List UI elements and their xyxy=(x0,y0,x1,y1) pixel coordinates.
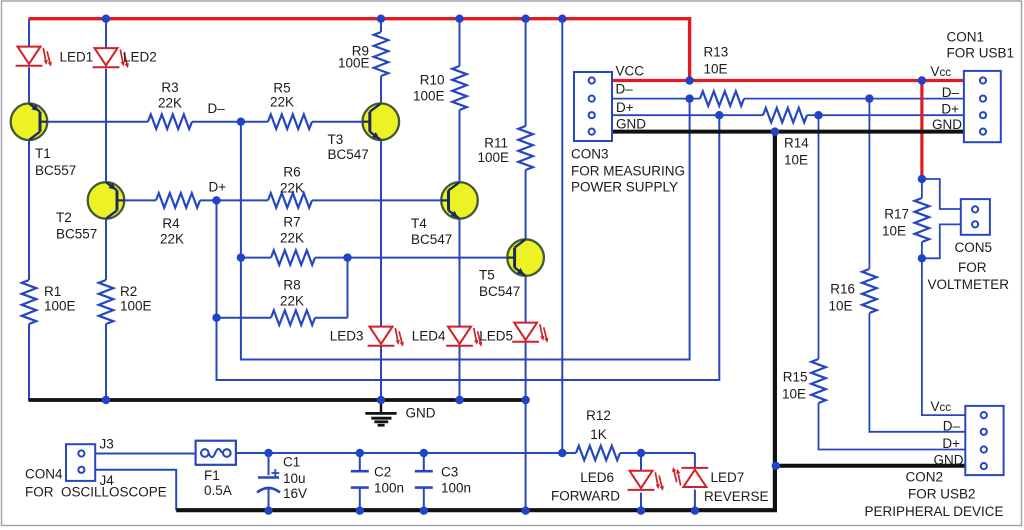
svg-text:10u: 10u xyxy=(283,471,306,486)
svg-text:LED6: LED6 xyxy=(580,470,614,485)
svg-text:BC557: BC557 xyxy=(35,163,76,178)
svg-text:BC547: BC547 xyxy=(411,232,452,247)
svg-text:16V: 16V xyxy=(283,486,307,501)
svg-text:Vcc: Vcc xyxy=(931,399,952,414)
svg-text:FOR MEASURING: FOR MEASURING xyxy=(571,164,685,179)
svg-text:D–: D– xyxy=(943,419,961,434)
svg-text:FOR USB1: FOR USB1 xyxy=(947,46,1015,61)
svg-text:LED4: LED4 xyxy=(412,329,446,344)
svg-text:100E: 100E xyxy=(44,299,76,314)
svg-text:LED5: LED5 xyxy=(479,329,513,344)
svg-text:T4: T4 xyxy=(411,216,427,231)
svg-text:T1: T1 xyxy=(35,146,51,161)
svg-text:R15: R15 xyxy=(783,370,808,385)
svg-text:C2: C2 xyxy=(374,465,391,480)
svg-text:T5: T5 xyxy=(479,268,495,283)
svg-text:T3: T3 xyxy=(328,132,344,147)
svg-text:VOLTMETER: VOLTMETER xyxy=(928,277,1010,292)
svg-text:CON3: CON3 xyxy=(571,147,609,162)
svg-text:100E: 100E xyxy=(413,89,445,104)
svg-text:T2: T2 xyxy=(56,210,72,225)
svg-text:FOR OSCILLOSCOPE: FOR OSCILLOSCOPE xyxy=(25,485,167,500)
svg-text:22K: 22K xyxy=(280,181,304,196)
svg-text:10E: 10E xyxy=(782,387,806,402)
svg-text:LED3: LED3 xyxy=(330,329,364,344)
svg-text:10E: 10E xyxy=(704,62,728,77)
svg-text:R7: R7 xyxy=(283,215,300,230)
svg-text:BC547: BC547 xyxy=(479,284,520,299)
svg-text:C1: C1 xyxy=(283,455,300,470)
svg-text:LED2: LED2 xyxy=(123,50,157,65)
svg-text:D+: D+ xyxy=(941,102,959,117)
svg-text:GND: GND xyxy=(932,117,962,132)
svg-text:CON4: CON4 xyxy=(25,467,63,482)
svg-text:R17: R17 xyxy=(884,207,909,222)
svg-text:D–: D– xyxy=(616,82,634,97)
svg-text:R11: R11 xyxy=(484,136,508,151)
svg-text:10E: 10E xyxy=(882,224,906,239)
svg-text:R6: R6 xyxy=(283,165,300,180)
svg-text:10E: 10E xyxy=(828,299,852,314)
svg-text:GND: GND xyxy=(616,117,646,132)
svg-text:F1: F1 xyxy=(204,468,220,483)
svg-text:D+: D+ xyxy=(209,180,227,195)
svg-text:R5: R5 xyxy=(273,81,290,96)
svg-text:CON2: CON2 xyxy=(906,470,944,485)
svg-text:R13: R13 xyxy=(704,45,729,60)
svg-text:BC557: BC557 xyxy=(56,227,97,242)
svg-text:R16: R16 xyxy=(830,282,855,297)
svg-text:Vcc: Vcc xyxy=(931,64,952,79)
svg-text:100n: 100n xyxy=(374,481,404,496)
svg-text:J4: J4 xyxy=(100,473,115,488)
svg-text:D+: D+ xyxy=(616,100,634,115)
svg-text:R3: R3 xyxy=(161,80,178,95)
svg-text:22K: 22K xyxy=(280,231,304,246)
svg-text:22K: 22K xyxy=(280,294,304,309)
svg-text:GND: GND xyxy=(934,453,964,468)
svg-text:0.5A: 0.5A xyxy=(204,483,232,498)
svg-text:1K: 1K xyxy=(590,427,607,442)
svg-text:D–: D– xyxy=(942,85,960,100)
svg-text:R2: R2 xyxy=(120,284,137,299)
svg-text:R14: R14 xyxy=(784,136,809,151)
svg-text:VCC: VCC xyxy=(616,64,645,79)
svg-text:LED7: LED7 xyxy=(711,470,745,485)
svg-text:10E: 10E xyxy=(784,153,808,168)
svg-text:C3: C3 xyxy=(441,465,458,480)
svg-text:PERIPHERAL DEVICE: PERIPHERAL DEVICE xyxy=(865,504,1004,519)
svg-text:100E: 100E xyxy=(338,56,370,71)
svg-text:CON1: CON1 xyxy=(947,30,985,45)
svg-text:R12: R12 xyxy=(586,408,611,423)
svg-text:D+: D+ xyxy=(942,436,960,451)
svg-text:22K: 22K xyxy=(270,95,294,110)
svg-text:D–: D– xyxy=(208,101,226,116)
svg-text:FOR: FOR xyxy=(958,260,987,275)
svg-text:J3: J3 xyxy=(100,437,114,452)
svg-text:R1: R1 xyxy=(44,284,61,299)
svg-text:22K: 22K xyxy=(158,96,182,111)
svg-text:100E: 100E xyxy=(477,150,509,165)
svg-text:R10: R10 xyxy=(420,73,445,88)
svg-text:POWER SUPPLY: POWER SUPPLY xyxy=(571,180,678,195)
svg-text:FORWARD: FORWARD xyxy=(551,489,620,504)
svg-text:REVERSE: REVERSE xyxy=(704,489,769,504)
svg-text:LED1: LED1 xyxy=(60,50,94,65)
svg-text:100E: 100E xyxy=(120,299,152,314)
svg-text:BC547: BC547 xyxy=(328,147,369,162)
svg-text:R4: R4 xyxy=(162,216,180,231)
svg-text:100n: 100n xyxy=(441,481,471,496)
svg-text:FOR USB2: FOR USB2 xyxy=(908,487,976,502)
svg-text:GND: GND xyxy=(406,406,436,421)
svg-text:CON5: CON5 xyxy=(955,240,993,255)
svg-text:22K: 22K xyxy=(160,232,184,247)
svg-text:R8: R8 xyxy=(283,278,300,293)
